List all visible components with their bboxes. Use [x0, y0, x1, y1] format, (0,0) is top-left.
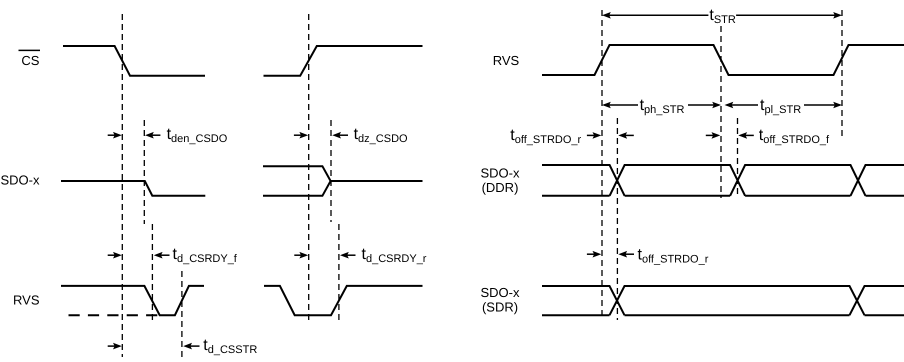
arrow toff_STRDO_r bottom right [621, 253, 634, 255]
wire SDO-x SDR bus bottom line [542, 314, 904, 316]
node RVS rise right guide dashed [338, 224, 340, 324]
node STR rise guide dashed [601, 10, 603, 320]
arrow tpl_STR span right [804, 104, 840, 106]
svg-text:RVS: RVS [13, 293, 40, 308]
wire SDO-x DDR bus bottom line [542, 195, 904, 197]
node SDO enable guide dashed [143, 120, 145, 224]
wire RVS falling pulse waveform [61, 286, 204, 315]
wire SDO-x tri-state mid line [331, 180, 423, 182]
arrow tph_STR span left [602, 102, 611, 109]
arrow tph_STR span right [688, 104, 719, 106]
wire RVS right pulse waveform [264, 286, 423, 315]
node STR fall guide dashed [720, 26, 722, 198]
arrow td_CSRDY_f left [108, 254, 120, 256]
wire RVS previous-low dashed level [69, 314, 159, 316]
arrow tden_CSDO right [147, 134, 160, 136]
wire SDO-x disable bus top [263, 166, 331, 181]
svg-text:SDO-x: SDO-x [481, 285, 521, 300]
node CS fall guide dashed [121, 14, 123, 357]
arrow td_CSRDY_f right [156, 254, 169, 256]
arrow toff_STRDO_r top left [587, 134, 599, 136]
arrow td_CSRDY_r left [294, 254, 306, 256]
arrow toff_STRDO_f left [706, 134, 718, 136]
node STR rise 2 guide dashed [841, 10, 843, 138]
arrow td_CSRDY_r right [342, 254, 355, 256]
arrow tdz_CSDO right [335, 134, 349, 136]
svg-text:(SDR): (SDR) [482, 299, 518, 314]
svg-text:SDO-x: SDO-x [481, 165, 521, 180]
wire SDO-x enable waveform [61, 181, 205, 196]
arrow td_CSSTR left [108, 345, 120, 347]
svg-text:SDO-x: SDO-x [1, 172, 41, 187]
wire SDO-x disable bus bottom [263, 181, 331, 196]
wire RVS strobe waveform [542, 45, 904, 75]
arrow tden_CSDO left [108, 134, 120, 136]
signal label CS overline [19, 49, 41, 51]
arrow toff_STRDO_r bottom left [587, 253, 599, 255]
wire SDO-x DDR bus top line [542, 165, 904, 196]
arrow td_CSSTR right [186, 345, 200, 347]
svg-text:(DDR): (DDR) [482, 180, 519, 195]
node DDR data transition 2 guide dashed [737, 118, 739, 198]
wire CS rising-edge waveform [264, 46, 423, 76]
arrow tSTR span left [602, 12, 611, 19]
node RVS fall guide dashed [151, 224, 153, 322]
node RVS rise guide dashed [181, 271, 183, 358]
arrow toff_STRDO_r top right [621, 134, 634, 136]
wire CS falling-edge waveform [63, 46, 205, 76]
arrow tSTR span right [736, 14, 840, 16]
wire SDO-x SDR bus top line [542, 286, 904, 315]
arrow toff_STRDO_f right [741, 134, 754, 136]
svg-text:RVS: RVS [493, 53, 520, 68]
arrow tdz_CSDO left [294, 134, 306, 136]
node SDO disable guide dashed [330, 120, 332, 222]
node DDR data transition guide dashed [616, 118, 618, 320]
arrow tpl_STR span left [725, 102, 734, 109]
svg-text:CS: CS [21, 53, 39, 68]
node CS rise guide dashed [308, 14, 310, 322]
